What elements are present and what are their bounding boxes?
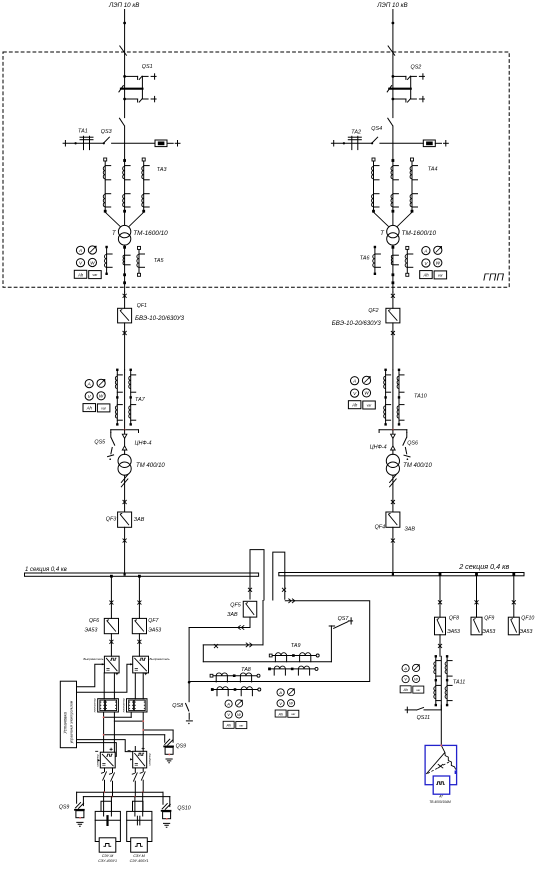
svg-text:Ah: Ah — [402, 688, 408, 692]
nodes on secondary wire — [392, 273, 395, 276]
feeder QF9 wire — [476, 576, 478, 617]
contactor block 1 — [98, 699, 119, 712]
CT TA secondary column left — [374, 248, 376, 273]
rectifier 1 output pins — [103, 673, 105, 699]
withdrawable contact mark — [391, 294, 395, 298]
svg-text:QS6: QS6 — [407, 441, 418, 447]
svg-text:Ah: Ah — [277, 712, 283, 716]
svg-text:QS2: QS2 — [411, 65, 422, 71]
svg-text:A: A — [278, 690, 282, 695]
meter cluster TA8 — [223, 700, 247, 729]
HV winding column right — [411, 158, 414, 161]
wire: incoming 10kV feeder line — [392, 10, 394, 118]
meter varh — [363, 401, 376, 409]
wire to bus — [124, 527, 126, 573]
fuse FU — [423, 140, 435, 147]
svg-text:QF7: QF7 — [148, 618, 159, 624]
svg-text:QS10: QS10 — [177, 805, 190, 811]
dc busbar wire lower — [83, 796, 169, 798]
electrolyser neck — [133, 801, 144, 811]
withdrawable contact mark — [123, 500, 127, 504]
disconnector QS main blade (thick) — [389, 88, 410, 90]
cabinet wire to rectifier 1 — [77, 664, 105, 687]
meter cluster TA10 — [348, 376, 375, 409]
svg-text:A: A — [87, 381, 91, 386]
dc busbar wire upper — [77, 791, 163, 793]
meter A — [76, 246, 84, 254]
disconnector QS11 — [405, 709, 416, 711]
svg-text:Ah: Ah — [225, 724, 231, 728]
svg-text:W: W — [436, 261, 441, 266]
inverter unit 1 — [100, 752, 115, 768]
junction bar — [111, 429, 139, 431]
CT row coil group 2 — [298, 666, 309, 669]
svg-text:ТА2: ТА2 — [351, 129, 361, 135]
svg-text:Ah: Ah — [86, 406, 93, 411]
CT row center node — [291, 668, 294, 671]
HV winding column left — [104, 158, 107, 161]
wire A: QF5 down and left — [249, 617, 251, 627]
feeder QF10 wire — [513, 576, 515, 617]
svg-text:QF9: QF9 — [484, 615, 494, 621]
svg-text:контактор: контактор — [94, 698, 97, 712]
svg-text:БВЭ-10-20/630У3: БВЭ-10-20/630У3 — [332, 320, 382, 327]
wire to fuse — [380, 142, 423, 144]
svg-text:Ah: Ah — [422, 273, 429, 278]
control cabinet — [60, 681, 76, 748]
CT row coil group 1 — [217, 687, 228, 690]
earthing switch link wire — [141, 76, 143, 99]
svg-text:ЭА53: ЭА53 — [447, 629, 460, 635]
svg-text:ЦНФ-4: ЦНФ-4 — [370, 445, 387, 451]
svg-text:A: A — [78, 248, 82, 253]
feeder QF8 wire — [439, 576, 441, 617]
CT row terminals — [210, 674, 213, 677]
CT TA11 column right — [446, 656, 448, 705]
fuse-disconnect triangles — [391, 434, 396, 450]
svg-text:QS3: QS3 — [101, 129, 112, 135]
svg-text:V: V — [227, 712, 230, 717]
svg-text:ЭА53: ЭА53 — [520, 629, 533, 635]
node on feeder — [123, 22, 126, 25]
meter A — [225, 700, 232, 707]
oil circuit breaker QF — [118, 308, 132, 323]
svg-text:Ah: Ah — [351, 403, 358, 408]
svg-text:ТА5: ТА5 — [154, 258, 165, 264]
meter varh — [97, 404, 110, 412]
wire B: from right side of left riser — [262, 601, 264, 645]
meter varh — [434, 271, 447, 279]
disconnector blade on feeder — [119, 118, 124, 126]
meter A — [85, 380, 93, 388]
meter var — [412, 664, 419, 671]
svg-text:ТА6: ТА6 — [360, 255, 370, 261]
disconnector QS blade on tap — [103, 142, 105, 144]
svg-text:QF8: QF8 — [449, 615, 459, 621]
cabinet wire to inverter 1 — [77, 743, 117, 757]
measurement loop rectangle — [189, 601, 370, 682]
earthing switch link wire — [410, 76, 412, 99]
svg-text:СЭУ-М: СЭУ-М — [133, 854, 145, 858]
meter V — [277, 700, 284, 707]
svg-text:QS5: QS5 — [94, 440, 106, 446]
svg-text:Выпрямитель: Выпрямитель — [150, 657, 171, 661]
converter inner blue box — [433, 776, 450, 794]
disconnector QS blade on tap — [371, 142, 373, 144]
meter Ah — [400, 686, 411, 693]
svg-text:ТА1: ТА1 — [78, 129, 88, 135]
wire transformer secondary — [124, 245, 126, 292]
svg-text:1 секция 0,4 кв: 1 секция 0,4 кв — [25, 567, 67, 573]
svg-text:ЛЭП 10 кВ: ЛЭП 10 кВ — [108, 2, 139, 9]
meter A — [402, 665, 409, 672]
electrolyser control box — [99, 838, 116, 852]
svg-text:ТМ 400/10: ТМ 400/10 — [403, 463, 432, 469]
breaker QF7 — [132, 618, 146, 633]
delta connection wires to transformer — [374, 212, 413, 226]
withdrawable contact mark — [391, 539, 395, 543]
svg-text:QS4: QS4 — [371, 126, 382, 132]
svg-text:QS1: QS1 — [142, 64, 153, 70]
svg-text:ЛЭП 10 кВ: ЛЭП 10 кВ — [376, 2, 407, 9]
electrolyser electrode — [106, 816, 108, 825]
junction dots dc link — [103, 716, 105, 718]
CT row terminals — [269, 654, 272, 657]
svg-text:2 секция 0,4 кв: 2 секция 0,4 кв — [458, 562, 509, 571]
meter A — [422, 247, 430, 255]
nodes on secondary wire — [123, 273, 126, 276]
oil circuit breaker QF — [386, 308, 400, 323]
meter W — [287, 700, 294, 707]
earthing switch branch upper — [123, 75, 126, 78]
withdrawable contact mark — [391, 331, 395, 335]
svg-text:QF10: QF10 — [521, 615, 534, 621]
meter cluster TA7 — [83, 379, 110, 412]
wire B riser to QS7 — [330, 626, 332, 662]
svg-text:ЗАВ: ЗАВ — [134, 517, 145, 523]
electrolyser divider — [95, 819, 120, 821]
withdrawable contact mark — [123, 539, 127, 543]
CT row center node — [233, 674, 236, 677]
fuse FU — [155, 140, 167, 147]
GPP substation boundary (dashed) — [3, 52, 509, 287]
CT row wire — [212, 689, 259, 691]
wire to junction — [392, 370, 394, 430]
meter Ah — [348, 401, 361, 409]
CT TA secondary column right — [406, 249, 408, 273]
svg-text:QF6: QF6 — [89, 618, 99, 624]
svg-text:Ah: Ah — [77, 272, 84, 277]
inverter 1 output blades — [104, 768, 106, 772]
converter unit blue box — [425, 745, 457, 784]
svg-text:БВЭ-10-20/630У3: БВЭ-10-20/630У3 — [135, 315, 185, 322]
junction bar — [379, 429, 407, 431]
svg-text:ТМ-1600/10: ТМ-1600/10 — [402, 230, 437, 237]
wire to fuse — [112, 142, 155, 144]
CT row coil group 1 — [216, 673, 227, 676]
riser duct right — [273, 552, 285, 600]
CT row coil group 2 — [241, 687, 252, 690]
meter W — [235, 711, 242, 718]
wire A down to junction — [188, 628, 190, 702]
meter W — [434, 259, 442, 267]
boundary crossing tick — [120, 46, 127, 55]
feeder QF7 wire — [138, 576, 140, 618]
CT measuring column left — [116, 370, 118, 425]
CT row coil group 1 — [275, 653, 286, 656]
electrolyser pins unit 1 — [103, 792, 105, 816]
CT row coil group 2 — [300, 653, 311, 656]
earthing switch branch upper — [392, 75, 395, 78]
HV winding column mid — [123, 159, 126, 162]
svg-text:W: W — [99, 394, 104, 399]
svg-text:A: A — [226, 701, 230, 706]
disconnector QS5 — [110, 433, 112, 438]
wire — [392, 323, 394, 370]
inverter polarity marks 2 — [128, 747, 145, 751]
meter varh — [413, 686, 424, 693]
circuit breaker QF low side — [118, 512, 132, 527]
CT measuring column right — [398, 370, 400, 425]
wire to junction — [124, 370, 126, 430]
wire transformer secondary — [392, 245, 394, 292]
disconnector blade on feeder — [388, 118, 393, 126]
disconnector QS8 blade — [185, 703, 189, 711]
horizontal tap wire with CT and fuse — [331, 142, 372, 144]
meter var — [362, 376, 370, 384]
meter var — [287, 689, 294, 696]
svg-text:ТА10: ТА10 — [414, 393, 427, 399]
svg-text:ТА8: ТА8 — [241, 667, 251, 673]
inverter 2 output blades — [134, 768, 136, 773]
power transformer TM-1600/10 — [118, 225, 130, 237]
svg-text:V: V — [279, 701, 282, 706]
CT TA secondary group mid coil — [125, 254, 131, 256]
rectifier unit 1 (Vypryamitel) — [104, 656, 119, 673]
disconnector QS7 — [329, 625, 334, 627]
breaker QF10 — [508, 617, 519, 635]
svg-text:инвертор: инвертор — [97, 754, 100, 767]
earthing switch QS9 — [75, 802, 84, 809]
electrolyser electrode — [136, 816, 138, 825]
svg-text:контактор: контактор — [122, 698, 125, 712]
zigzag winding mark — [389, 474, 396, 487]
earthing switch QS10 — [162, 803, 171, 810]
meter var — [434, 246, 442, 254]
circuit breaker QF low side — [386, 512, 400, 527]
electrolyser divider — [127, 819, 152, 821]
meter Ah — [275, 710, 286, 717]
withdrawable contact mark — [123, 331, 127, 335]
wire QF8 to TA11 — [440, 656, 442, 710]
CT TA secondary column left — [106, 248, 108, 273]
zigzag winding mark — [121, 474, 128, 487]
svg-text:A: A — [403, 666, 407, 671]
CT row wire — [271, 655, 318, 657]
CT TA11 column left — [435, 656, 437, 705]
contactor block 2 — [127, 699, 148, 712]
svg-text:ЭА53: ЭА53 — [148, 628, 161, 634]
meter V — [402, 676, 409, 683]
horizontal tap wire with CT and fuse — [63, 142, 104, 144]
CT row coil group 2 — [240, 673, 251, 676]
meter Ah — [83, 404, 96, 412]
svg-text:QF3: QF3 — [106, 517, 116, 523]
svg-text:ЭА53: ЭА53 — [85, 628, 98, 634]
wire TA11 to converter — [440, 705, 442, 745]
riser duct left (to QF5) — [250, 550, 264, 601]
CT row wire — [212, 675, 259, 677]
svg-text:ЗАВ: ЗАВ — [227, 612, 238, 618]
cabinet wire to rectifier 2 — [77, 664, 133, 692]
meter cluster TA9 — [275, 689, 299, 718]
auxiliary transformer TM-400/10 — [386, 454, 399, 467]
CT measuring column right — [130, 370, 132, 425]
svg-text:A: A — [352, 379, 356, 384]
dc busbar junction dots — [103, 791, 105, 793]
meter cluster TA6 (right branch) — [420, 246, 447, 279]
wire — [124, 323, 126, 370]
svg-text:Установка: Установка — [63, 712, 68, 734]
svg-text:ЗАВ: ЗАВ — [405, 527, 416, 533]
svg-text:ТА9: ТА9 — [291, 643, 301, 649]
svg-text:QS9: QS9 — [176, 744, 186, 750]
meter V — [85, 392, 93, 400]
meter V — [76, 259, 84, 267]
wire to bus — [392, 527, 394, 573]
CT row terminals — [268, 668, 271, 671]
svg-text:QF5: QF5 — [230, 602, 241, 608]
svg-text:ЭА53: ЭА53 — [482, 629, 495, 635]
junction of loop and wire A — [188, 681, 191, 684]
breaker QF8 — [435, 617, 446, 635]
fuse-disconnect triangles — [122, 434, 127, 450]
disconnector QS6 — [406, 433, 408, 438]
bus 1 taps — [110, 575, 113, 578]
bus 2 section 0.4kV — [279, 573, 524, 576]
svg-text:Выпрямитель: Выпрямитель — [83, 657, 104, 661]
cabinet wire to inverter 2 — [77, 740, 133, 752]
breaker QF6 — [104, 618, 118, 633]
meter V — [351, 389, 359, 397]
svg-text:СЭУ-М: СЭУ-М — [102, 854, 114, 858]
wire after fuse with terminal — [167, 142, 173, 144]
meter varh — [236, 722, 247, 729]
auxiliary transformer TM-400/10 — [118, 454, 131, 467]
meter V — [225, 711, 232, 718]
svg-text:ГПП: ГПП — [483, 272, 504, 284]
meter varh — [288, 710, 299, 717]
svg-text:QS11: QS11 — [417, 715, 430, 721]
electrolyser pins unit 2 — [134, 797, 136, 816]
power transformer TM-1600/10 — [387, 225, 399, 237]
svg-text:QS9: QS9 — [59, 805, 69, 811]
svg-text:СЭУ-400У1: СЭУ-400У1 — [130, 859, 149, 863]
wire — [392, 430, 394, 455]
svg-text:ТА3: ТА3 — [157, 167, 167, 173]
HV winding column mid — [392, 159, 395, 162]
svg-text:A: A — [423, 248, 427, 253]
CT row terminals — [211, 688, 214, 691]
wire — [124, 430, 126, 455]
disconnector QS main blade (thick) — [121, 88, 142, 90]
electrolyser unit box — [127, 811, 152, 841]
boundary crossing tick — [388, 46, 395, 55]
meter Ah — [420, 271, 433, 279]
meter A — [351, 377, 359, 385]
svg-text:ТМ-1600/10: ТМ-1600/10 — [133, 230, 168, 237]
meter A — [277, 689, 284, 696]
dc link wires between contactors and inverters — [103, 712, 105, 752]
bus 1 section 0.4kV — [25, 573, 259, 576]
delta connection wires to transformer — [105, 212, 144, 226]
svg-text:ТА4: ТА4 — [428, 167, 438, 173]
inverter unit 2 — [133, 751, 147, 768]
svg-text:СЭУ-400У1: СЭУ-400У1 — [98, 859, 117, 863]
meter var — [88, 246, 96, 254]
wire — [392, 292, 394, 308]
svg-text:ТА11: ТА11 — [453, 680, 465, 686]
earthing switch branch lower — [123, 98, 126, 101]
svg-text:инвертор: инвертор — [148, 753, 151, 766]
HV winding column right — [142, 158, 145, 161]
breaker QF5 — [243, 601, 257, 617]
wires down to QS10 — [162, 792, 164, 804]
svg-text:ЦНФ-4: ЦНФ-4 — [135, 440, 152, 446]
electrolyser neck — [101, 801, 112, 811]
svg-text:QF4: QF4 — [375, 525, 385, 531]
meter cluster TA5 (left branch) — [74, 246, 101, 279]
node on feeder — [392, 22, 395, 25]
svg-text:ТМ 400/10: ТМ 400/10 — [136, 463, 165, 469]
meter cluster TA11 — [400, 664, 424, 693]
meter var — [235, 700, 242, 707]
electrolyser unit box — [95, 811, 120, 841]
earthing switch branch lower — [392, 98, 395, 101]
contact marks under bus — [248, 588, 252, 592]
rectifier 2 output pins — [134, 673, 136, 699]
breaker QF9 — [471, 617, 482, 635]
meter V — [422, 259, 430, 267]
svg-text:QF2: QF2 — [368, 308, 378, 314]
svg-text:V: V — [404, 677, 407, 682]
CT TA secondary group mid coil — [393, 254, 399, 256]
earthing switch QS9 mid (dc link) — [164, 739, 173, 746]
wires down to QS9 — [76, 792, 78, 803]
withdrawable contact mark — [123, 294, 127, 298]
svg-text:управления электролизом: управления электролизом — [70, 700, 74, 744]
rectifier unit 2 (Vypryamitel) — [133, 656, 149, 673]
svg-text:QF1: QF1 — [137, 303, 147, 309]
electrolyser control box — [131, 838, 148, 852]
wire — [392, 475, 394, 512]
svg-text:ТВ-4000/10АМ: ТВ-4000/10АМ — [429, 800, 451, 804]
meter Ah — [74, 270, 87, 278]
CT row center node — [234, 688, 237, 691]
svg-text:ТА7: ТА7 — [135, 397, 146, 403]
meter varh — [89, 271, 102, 279]
svg-text:QS8: QS8 — [172, 703, 183, 709]
meter Ah — [223, 721, 234, 728]
current transformer TA (bar primary) — [351, 136, 353, 149]
withdrawable contact mark — [391, 500, 395, 504]
CT row wire — [270, 668, 317, 670]
meter W — [362, 389, 370, 397]
svg-text:QS7: QS7 — [338, 616, 350, 622]
converter internal drawing — [426, 745, 445, 774]
wire — [124, 475, 126, 512]
current transformer TA (bar primary) — [83, 136, 85, 149]
